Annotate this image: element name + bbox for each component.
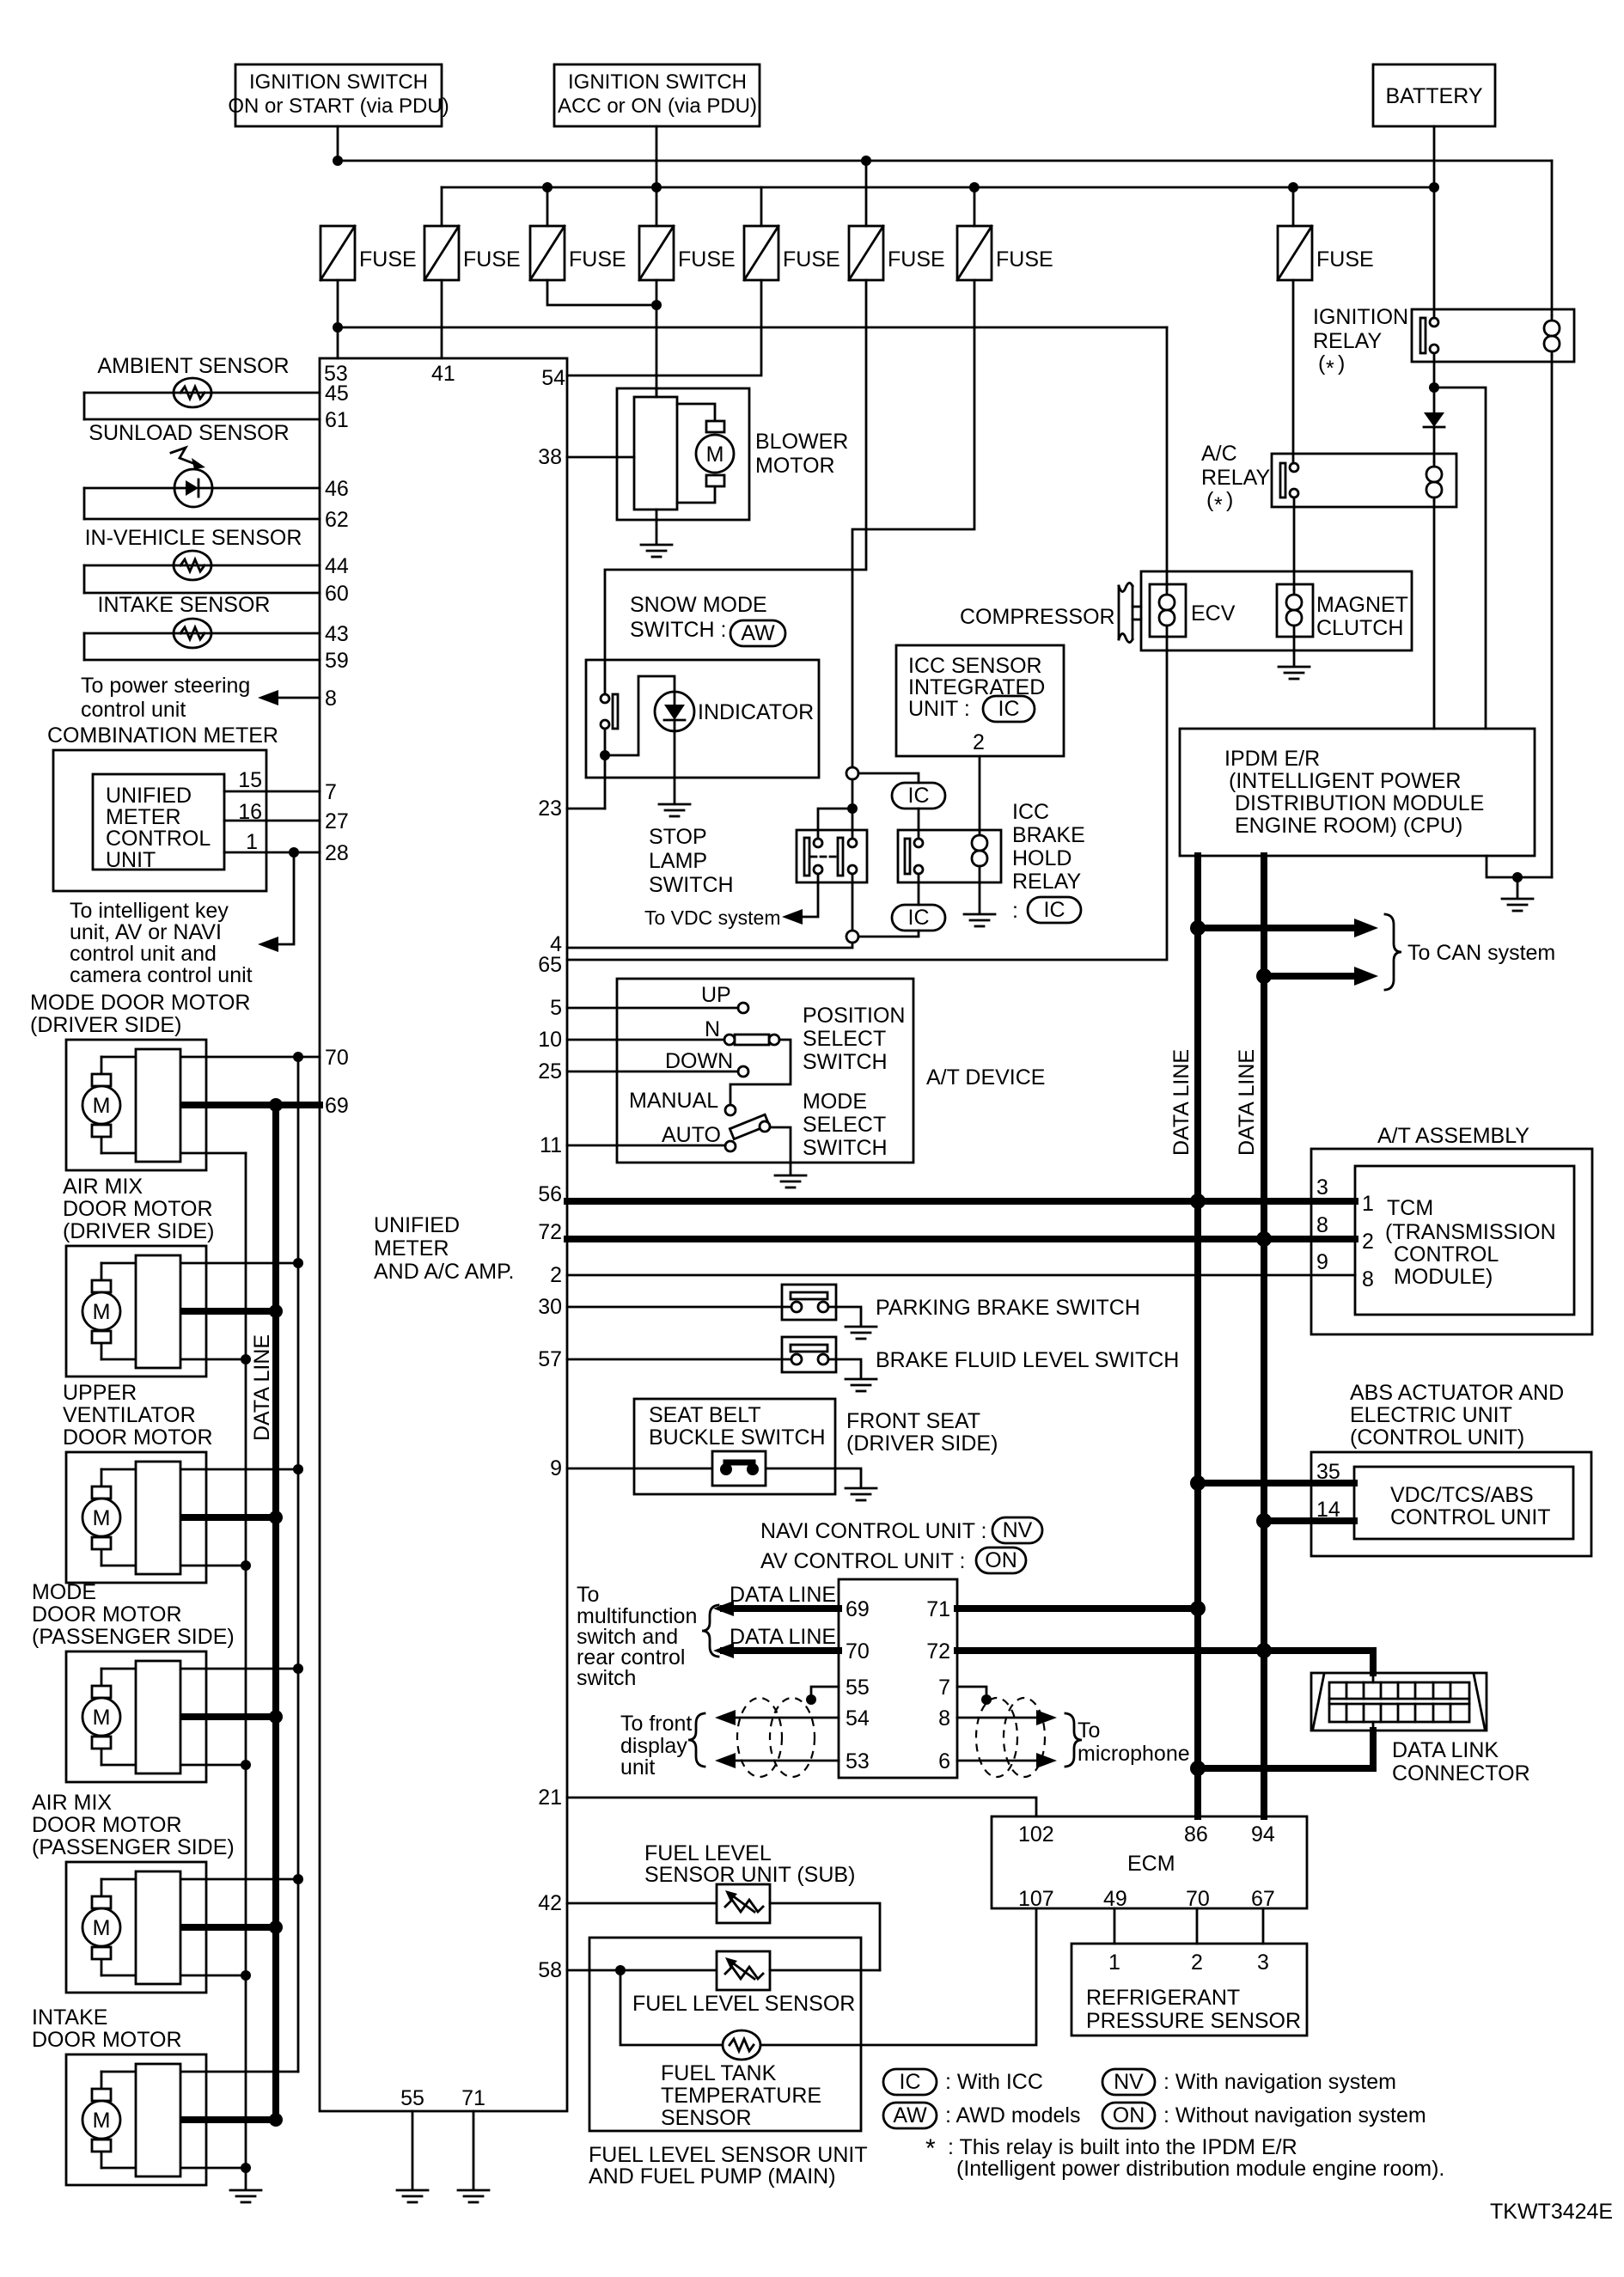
wire ign1 down — [337, 126, 339, 161]
wire blower motor bottom lead — [677, 483, 715, 503]
wire pin35 thick — [1198, 1480, 1354, 1486]
front seat box — [634, 1399, 835, 1494]
svg-text:DATA LINK: DATA LINK — [1392, 1738, 1499, 1762]
A/T device box — [617, 979, 913, 1163]
svg-text:CLUTCH: CLUTCH — [1316, 616, 1403, 640]
svg-text:9: 9 — [550, 1456, 562, 1480]
bus1 wire y187 — [338, 160, 1552, 162]
svg-text:AIR MIX: AIR MIX — [32, 1791, 112, 1815]
svg-text::: : — [1012, 899, 1018, 923]
node x321 y1766 — [269, 1511, 283, 1524]
air mix door motor (driver side) motor — [82, 1280, 120, 1343]
wire AV data line arrow 70 — [723, 1647, 839, 1654]
wire indicator ground lead — [674, 730, 676, 803]
N switch — [724, 1035, 779, 1045]
svg-text:COMPRESSOR: COMPRESSOR — [960, 605, 1115, 629]
svg-text:56: 56 — [538, 1182, 562, 1206]
wire ignition relay contact top — [1433, 187, 1436, 318]
wire DLC top thin — [1372, 1673, 1375, 1682]
wire mode door motor (passenger side) bottom — [101, 1764, 246, 1767]
svg-text:SELECT: SELECT — [803, 1113, 886, 1137]
wire pin7 — [224, 791, 320, 793]
fuel tank temperature sensor — [723, 2030, 760, 2060]
svg-text:54: 54 — [846, 1706, 870, 1731]
svg-text:28: 28 — [325, 841, 349, 865]
wire pin69 thick from motor1 — [180, 1102, 320, 1108]
data line 2 thick — [1261, 856, 1267, 1816]
wire fuel main out — [770, 1969, 880, 1972]
wire air mix door motor (passenger side) bottom — [101, 1975, 246, 1977]
svg-text:1: 1 — [246, 830, 258, 854]
wire pin72 thick — [567, 1236, 1355, 1242]
svg-text:72: 72 — [926, 1639, 950, 1663]
blower resistor rect — [634, 397, 677, 510]
svg-text:NV: NV — [1003, 1518, 1033, 1542]
CAN brace — [1385, 914, 1401, 990]
wire pin55 ground lead — [412, 2111, 414, 2188]
wire air mix door motor (passenger side) mid thick — [180, 1924, 276, 1931]
sunload light arrow — [171, 448, 205, 469]
svg-text:BATTERY: BATTERY — [1386, 84, 1483, 108]
svg-text:MODE: MODE — [32, 1580, 96, 1604]
svg-text:46: 46 — [325, 477, 349, 501]
wire blower ground lead — [656, 510, 658, 543]
svg-text:camera control unit: camera control unit — [70, 963, 253, 987]
svg-text:): ) — [1226, 488, 1233, 512]
svg-text:BRAKE: BRAKE — [1012, 823, 1085, 847]
svg-text:IC: IC — [908, 784, 930, 808]
svg-text:DOWN: DOWN — [665, 1049, 733, 1073]
ground IPDM — [1502, 899, 1533, 911]
svg-text:IC: IC — [998, 697, 1020, 721]
svg-text:70: 70 — [846, 1639, 870, 1663]
svg-text:42: 42 — [538, 1891, 562, 1915]
svg-text:AW: AW — [741, 621, 775, 645]
node shield55 — [806, 1694, 816, 1705]
wire pin38 — [567, 456, 634, 459]
wire AC coil to IPDM — [1433, 501, 1436, 729]
wire pin9 — [567, 1468, 835, 1470]
svg-text:(TRANSMISSION: (TRANSMISSION — [1385, 1220, 1556, 1244]
svg-text:ICC SENSOR: ICC SENSOR — [908, 654, 1042, 678]
intake door motor actuator rect — [136, 2064, 180, 2176]
svg-text:INDICATOR: INDICATOR — [698, 700, 814, 724]
connector circle pin4 — [846, 931, 858, 943]
wire mode to ground — [770, 1127, 791, 1174]
node x286 y2299 — [241, 1970, 251, 1981]
svg-text:ENGINE ROOM) (CPU): ENGINE ROOM) (CPU) — [1235, 814, 1462, 838]
svg-text:M: M — [93, 1300, 111, 1324]
svg-text:94: 94 — [1251, 1822, 1275, 1847]
arrowhead intelligent key — [258, 937, 278, 952]
combination meter box — [53, 750, 266, 891]
node pin28 branch — [289, 847, 299, 858]
svg-text:unit: unit — [620, 1755, 655, 1779]
sunload sensor photodiode — [174, 469, 212, 507]
svg-text:IGNITION SWITCH: IGNITION SWITCH — [568, 70, 747, 94]
svg-text:To CAN system: To CAN system — [1407, 941, 1555, 965]
svg-text:69: 69 — [325, 1094, 349, 1118]
svg-text:M: M — [93, 1706, 111, 1730]
ECV box — [1150, 584, 1186, 637]
snow mode switch contact — [601, 694, 618, 729]
ignition relay contact — [1420, 318, 1438, 353]
svg-text:AND FUEL PUMP (MAIN): AND FUEL PUMP (MAIN) — [589, 2164, 836, 2188]
node bus2-battery — [1429, 182, 1439, 192]
contact circle UP — [738, 1003, 748, 1013]
wire to intelligent key — [263, 852, 294, 944]
wire fuse3 bottom — [547, 280, 656, 305]
svg-text:55: 55 — [400, 2086, 424, 2110]
svg-text:(DRIVER SIDE): (DRIVER SIDE) — [63, 1219, 214, 1243]
A/C relay coil — [1426, 461, 1442, 501]
svg-text:M: M — [93, 1094, 111, 1118]
upper ventilator door motor motor — [82, 1486, 120, 1549]
mode door motor (passenger side) actuator rect — [136, 1661, 180, 1773]
svg-text:SUNLOAD SENSOR: SUNLOAD SENSOR — [89, 421, 289, 445]
node x321 y1998 — [269, 1710, 283, 1724]
svg-text:41: 41 — [431, 362, 455, 386]
wire connector to IC1 — [858, 773, 919, 783]
mode door motor (driver side) actuator rect — [136, 1049, 180, 1162]
svg-text:M: M — [93, 1916, 111, 1940]
front display brace — [688, 1713, 705, 1767]
data line bus x321 thick (pin69) — [272, 1105, 279, 2120]
wire pin6 arrow — [957, 1760, 1050, 1762]
wire intake door motor mid thick — [180, 2116, 276, 2123]
ground parking brake — [846, 1327, 876, 1339]
svg-text:POSITION: POSITION — [803, 1004, 905, 1028]
svg-text:DATA LINE: DATA LINE — [730, 1583, 836, 1607]
svg-text:FRONT SEAT: FRONT SEAT — [846, 1409, 980, 1433]
mode door motor (driver side) motor — [82, 1074, 120, 1137]
wire pin71 ground lead — [473, 2111, 475, 2188]
ignition relay box — [1412, 309, 1574, 362]
svg-text:CONTROL UNIT: CONTROL UNIT — [1390, 1505, 1551, 1529]
node IPDM ground — [1512, 872, 1523, 882]
svg-text:(DRIVER SIDE): (DRIVER SIDE) — [30, 1013, 181, 1037]
svg-text:*: * — [1326, 357, 1334, 381]
svg-text:DOOR MOTOR: DOOR MOTOR — [63, 1425, 213, 1450]
unified meter control unit box — [93, 774, 224, 870]
svg-text:72: 72 — [538, 1220, 562, 1244]
svg-text:55: 55 — [846, 1676, 870, 1700]
wire pin43 — [84, 632, 320, 635]
arrowhead pin8 — [258, 690, 278, 705]
svg-text:59: 59 — [325, 649, 349, 673]
node fuse3-fuse4 — [651, 300, 662, 310]
svg-text:SELECT: SELECT — [803, 1027, 886, 1051]
arrowhead 70 — [713, 1643, 734, 1658]
air mix door motor (passenger side) M-circle wires — [101, 1879, 103, 1975]
wire ECM70 — [1196, 1908, 1199, 1944]
wire pin59 — [84, 659, 320, 662]
wire pin4 — [567, 943, 852, 948]
AW stadium — [730, 620, 785, 646]
svg-text:FUSE: FUSE — [359, 247, 417, 272]
svg-text:53: 53 — [846, 1749, 870, 1773]
wire CAN arrow 2 — [1264, 973, 1366, 980]
wire magnet clutch ground lead — [1293, 637, 1296, 665]
wire connector to stoplamp — [852, 779, 854, 839]
svg-text:SWITCH :: SWITCH : — [630, 618, 727, 642]
wire shield to IC2 — [858, 931, 919, 937]
svg-text:VENTILATOR: VENTILATOR — [63, 1403, 196, 1427]
ON stadium — [976, 1548, 1026, 1573]
node pin71-dataline1 — [1190, 1601, 1206, 1616]
svg-text:FUEL LEVEL: FUEL LEVEL — [644, 1841, 772, 1865]
svg-text:A/T DEVICE: A/T DEVICE — [926, 1065, 1045, 1090]
svg-text:2: 2 — [973, 730, 985, 754]
svg-text:38: 38 — [538, 445, 562, 469]
svg-text:REFRIGERANT: REFRIGERANT — [1086, 1986, 1240, 2010]
wire bus1 to ignition coil — [1551, 161, 1554, 315]
wire fuse5 bottom to pin54 — [567, 280, 761, 375]
svg-text:VDC/TCS/ABS: VDC/TCS/ABS — [1390, 1483, 1534, 1507]
wire pin61 — [84, 418, 320, 421]
svg-text:: This relay is built into the: : This relay is built into the IPDM E/R — [948, 2135, 1297, 2159]
svg-text:8: 8 — [1362, 1267, 1374, 1291]
wire IPDM ground lead — [1517, 877, 1519, 897]
wire pin71 thick — [957, 1605, 1198, 1612]
svg-text:DOOR MOTOR: DOOR MOTOR — [63, 1197, 213, 1221]
battery box — [1373, 64, 1495, 126]
svg-text:M: M — [706, 443, 724, 467]
air mix door motor (driver side) — [66, 1246, 206, 1377]
node x286 y1822 — [241, 1560, 251, 1571]
ambient sensor thermistor — [174, 378, 211, 407]
wire pin57 — [567, 1358, 791, 1361]
svg-text:6: 6 — [938, 1749, 950, 1773]
svg-text:*: * — [925, 2134, 936, 2163]
svg-text:To: To — [577, 1583, 599, 1607]
arrowhead 69 — [713, 1601, 734, 1616]
svg-text:RELAY: RELAY — [1313, 329, 1382, 353]
svg-text:N: N — [705, 1017, 720, 1041]
svg-text:DISTRIBUTION MODULE: DISTRIBUTION MODULE — [1235, 791, 1484, 815]
svg-text:M: M — [93, 2109, 111, 2133]
parking brake switch box — [782, 1285, 836, 1320]
svg-text:IN-VEHICLE SENSOR: IN-VEHICLE SENSOR — [85, 526, 302, 550]
svg-text:1: 1 — [1362, 1192, 1374, 1216]
compressor box — [1141, 571, 1412, 650]
wire IC1 to relay contact — [918, 809, 920, 839]
data line bus x286 — [245, 1153, 247, 2188]
A/C relay contact — [1280, 463, 1298, 498]
wire stoplamp left branch — [818, 809, 852, 839]
svg-text:IGNITION SWITCH: IGNITION SWITCH — [249, 70, 428, 94]
svg-text:RELAY: RELAY — [1012, 870, 1081, 894]
svg-text:RELAY: RELAY — [1201, 466, 1270, 490]
mode door motor (driver side) — [66, 1040, 206, 1170]
svg-text:FUSE: FUSE — [888, 247, 945, 272]
svg-text:58: 58 — [538, 1958, 562, 1982]
svg-text:SWITCH: SWITCH — [803, 1050, 888, 1074]
wire fuse5 top — [760, 187, 763, 226]
svg-text:(: ( — [1318, 351, 1326, 375]
IC legend stadium — [883, 2069, 937, 2095]
ground pin71 — [458, 2190, 489, 2202]
svg-text:A/T ASSEMBLY: A/T ASSEMBLY — [1377, 1124, 1529, 1148]
wire N to manual — [730, 1040, 791, 1105]
fuse F8 — [957, 226, 992, 280]
wire ECM67 — [1262, 1908, 1265, 1944]
svg-text:To power steering: To power steering — [81, 674, 250, 698]
svg-text:NAVI CONTROL UNIT :: NAVI CONTROL UNIT : — [760, 1519, 986, 1543]
magnet clutch coil — [1286, 589, 1302, 637]
air mix door motor (passenger side) — [66, 1862, 206, 1993]
svg-text:DATA LINE: DATA LINE — [1235, 1049, 1259, 1156]
svg-text:8: 8 — [938, 1706, 950, 1731]
wire ICC relay coil ground lead — [979, 882, 981, 913]
svg-text:15: 15 — [238, 768, 262, 792]
svg-text:7: 7 — [938, 1676, 950, 1700]
fuse F2 — [424, 226, 459, 280]
svg-text:SEAT BELT: SEAT BELT — [649, 1403, 761, 1427]
data line 1 thick — [1194, 856, 1201, 1816]
arrowhead CAN1 — [1354, 919, 1378, 937]
svg-text:61: 61 — [325, 408, 349, 432]
svg-text:To: To — [1078, 1718, 1100, 1743]
refrigerant pressure sensor box — [1071, 1944, 1307, 2036]
wire DLC top thick — [1370, 1651, 1377, 1673]
diode D1 — [1424, 412, 1444, 427]
svg-text:display: display — [620, 1734, 687, 1758]
wire pin8 arrow — [957, 1717, 1050, 1719]
wire brake fluid out — [828, 1359, 861, 1377]
svg-text:DOOR MOTOR: DOOR MOTOR — [32, 1813, 182, 1837]
ECV coil — [1159, 589, 1175, 637]
wire pin60 — [84, 592, 320, 595]
svg-text:control unit and: control unit and — [70, 942, 217, 966]
svg-text:65: 65 — [538, 953, 562, 977]
NV stadium — [992, 1517, 1042, 1543]
wire pin23 — [567, 808, 605, 810]
svg-text:: With ICC: : With ICC — [945, 2070, 1043, 2094]
wire mode door motor (passenger side) mid thick — [180, 1713, 276, 1720]
ground ICC relay — [964, 914, 995, 926]
wire fuse4 top — [656, 187, 658, 226]
svg-text:BRAKE FLUID LEVEL SWITCH: BRAKE FLUID LEVEL SWITCH — [876, 1348, 1179, 1372]
wire fuse6 bottom to snow-mode — [605, 280, 866, 694]
wire pin58 — [567, 1969, 717, 1972]
svg-text:44: 44 — [325, 554, 349, 578]
wire pin14 thick — [1264, 1517, 1354, 1524]
stop lamp switch contacts — [804, 838, 857, 876]
ICC brake hold relay box — [898, 830, 1001, 882]
svg-text:71: 71 — [461, 2086, 485, 2110]
wire pin8 arrow — [263, 697, 320, 699]
svg-text:METER: METER — [374, 1236, 449, 1261]
svg-text:(: ( — [1206, 488, 1214, 512]
wire AC contact bottom — [1293, 498, 1296, 507]
ground brake fluid — [846, 1379, 876, 1391]
node bus1-fuse1 — [333, 156, 343, 166]
fuse F6 — [849, 226, 883, 280]
svg-text:IC: IC — [900, 2070, 921, 2094]
wire pin27 — [224, 820, 320, 822]
air mix door motor (driver side) M-circle wires — [101, 1263, 103, 1359]
intake sensor thermistor — [174, 619, 211, 648]
node pin72-dataline2 — [1256, 1231, 1272, 1247]
wire ECV bottom — [1166, 637, 1169, 650]
ECM box — [992, 1816, 1307, 1908]
wire ECV top feed — [1166, 327, 1169, 589]
svg-text:microphone: microphone — [1078, 1742, 1190, 1766]
upper ventilator door motor actuator rect — [136, 1462, 180, 1574]
wire IPDM right ground net — [1487, 856, 1552, 877]
svg-text:ECV: ECV — [1191, 601, 1236, 626]
node snow indicator branch — [600, 750, 610, 760]
svg-text:SENSOR: SENSOR — [661, 2106, 752, 2130]
arrowhead 53 — [715, 1753, 736, 1768]
svg-text:2: 2 — [550, 1263, 562, 1287]
wire pin65 to ECV — [567, 650, 1167, 960]
node bus2-fuse3 — [542, 182, 553, 192]
svg-text:NV: NV — [1114, 2070, 1144, 2094]
wire upper ventilator door motor bottom — [101, 1565, 246, 1567]
wire air mix door motor (passenger side) top — [101, 1878, 298, 1881]
svg-text:IC: IC — [1044, 898, 1065, 922]
wire fuse2 top — [441, 187, 443, 226]
ICC relay contact — [905, 839, 923, 874]
ignition relay coil — [1544, 315, 1560, 356]
node motor1-top — [293, 1052, 303, 1062]
svg-text:AUTO: AUTO — [662, 1123, 721, 1147]
svg-text:CONTROL: CONTROL — [106, 827, 211, 851]
svg-text:AV CONTROL UNIT :: AV CONTROL UNIT : — [760, 1549, 965, 1573]
svg-text:86: 86 — [1184, 1822, 1208, 1847]
IPDM E/R box — [1180, 729, 1535, 856]
node bus2-fuse1507 — [1288, 182, 1298, 192]
svg-text:FUEL LEVEL SENSOR UNIT: FUEL LEVEL SENSOR UNIT — [589, 2143, 868, 2167]
wire pin5 — [567, 1007, 738, 1010]
node pin56-dataline1 — [1190, 1193, 1206, 1209]
IC stadium top — [892, 783, 945, 809]
wire diode to AC coil — [1433, 427, 1436, 461]
IC stadium bottom — [892, 905, 945, 931]
svg-text:62: 62 — [325, 508, 349, 532]
wire ign2 down — [656, 126, 658, 187]
svg-text:ECM: ECM — [1127, 1852, 1175, 1876]
svg-text:DATA LINE: DATA LINE — [250, 1334, 274, 1441]
fuel main unit box — [589, 1938, 861, 2131]
wire mode door motor (passenger side) top — [101, 1668, 298, 1670]
wire pin53 arrow — [720, 1760, 839, 1762]
wire diode branch right — [1434, 388, 1486, 729]
compressor pulley symbol — [1119, 583, 1141, 642]
wire parking brake out — [828, 1307, 861, 1325]
svg-text:5: 5 — [550, 996, 562, 1020]
wire fuse6 top — [865, 161, 868, 226]
node CAN1 — [1190, 920, 1206, 936]
svg-text:69: 69 — [846, 1597, 870, 1621]
node x347 y1942 — [293, 1663, 303, 1674]
mode door motor (passenger side) motor — [82, 1686, 120, 1749]
node pin72av-dataline2 — [1256, 1643, 1272, 1658]
svg-text:DOOR MOTOR: DOOR MOTOR — [32, 1602, 182, 1627]
node stoplamp branch — [847, 803, 858, 814]
wire to VDC system — [787, 874, 818, 917]
wire pin107 to fuel temp — [760, 1908, 1036, 2045]
ignition switch ACC box — [554, 64, 760, 126]
svg-text:23: 23 — [538, 797, 562, 821]
node x347 y1710 — [293, 1464, 303, 1474]
wire fuse1134 top — [974, 187, 976, 226]
air mix door motor (driver side) actuator rect — [136, 1255, 180, 1368]
node x347 y2187 — [293, 1874, 303, 1884]
wire fuse1 bottom to pin53 — [337, 280, 339, 358]
